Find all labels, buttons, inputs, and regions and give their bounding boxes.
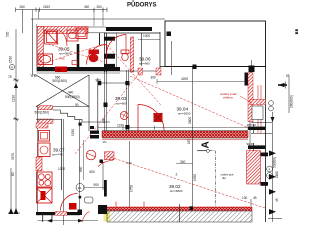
black pier xyxy=(245,73,249,86)
svg-text:PŮDORYS: PŮDORYS xyxy=(127,1,156,9)
svg-text:2600: 2600 xyxy=(188,117,192,124)
poché stubs on corridor wall xyxy=(104,37,115,41)
svg-text:1%: 1% xyxy=(103,140,108,144)
toilet red 39.06 xyxy=(121,50,129,54)
svg-text:60: 60 xyxy=(11,172,15,176)
svg-text:15%: 15% xyxy=(89,51,95,55)
svg-text:55: 55 xyxy=(286,74,290,78)
svg-text:sm=960: sm=960 xyxy=(139,62,150,66)
door opening in top wall xyxy=(88,27,106,33)
svg-text:45: 45 xyxy=(253,196,257,200)
red dashed diagonals bathroom xyxy=(48,44,104,62)
top-right big rectangle (neighbor space) xyxy=(165,21,266,67)
red hatch piers left xyxy=(38,106,53,110)
svg-text:sm=3800: sm=3800 xyxy=(59,52,72,56)
guide line x194 xyxy=(192,67,194,131)
red hatch vertical strip in 39.06 xyxy=(130,37,133,72)
bathroom top wall black part xyxy=(106,27,152,31)
small black square on its left edge xyxy=(167,32,172,37)
red hatch column low xyxy=(247,151,261,184)
yellow patch xyxy=(104,211,111,222)
stairs steps xyxy=(53,78,110,132)
black marker on top wall xyxy=(193,65,197,70)
white leaf rect xyxy=(252,106,263,120)
red circle marker near door xyxy=(120,112,128,120)
svg-text:1510: 1510 xyxy=(9,56,13,63)
corner pier square xyxy=(100,160,104,164)
secondary top line xyxy=(31,18,165,20)
top dimension chain xyxy=(16,8,108,13)
svg-text:50(800): 50(800) xyxy=(273,157,277,168)
red dashed diagonals corridor/39.04 xyxy=(75,45,249,154)
washer box xyxy=(76,28,87,39)
svg-text:sm=740: sm=740 xyxy=(52,153,63,157)
svg-text:300: 300 xyxy=(97,5,103,9)
svg-text:1160: 1160 xyxy=(275,171,279,178)
door half-arc corridor xyxy=(138,105,164,131)
svg-text:2: 2 xyxy=(176,173,178,177)
svg-text:1810: 1810 xyxy=(43,5,50,9)
svg-text:1000: 1000 xyxy=(58,167,65,171)
svg-text:1750: 1750 xyxy=(130,185,134,192)
black diagonal hatch band xyxy=(107,211,252,222)
svg-text:4200: 4200 xyxy=(181,77,188,81)
svg-text:300: 300 xyxy=(151,76,157,80)
black end cap of red wall xyxy=(90,131,99,134)
svg-text:500(1500): 500(1500) xyxy=(35,111,50,115)
svg-text:340: 340 xyxy=(84,5,90,9)
svg-text:39.03: 39.03 xyxy=(115,96,127,101)
svg-text:1530: 1530 xyxy=(71,129,75,136)
vertical guide lines big room xyxy=(128,141,130,211)
bathroom right wall xyxy=(99,33,101,45)
svg-text:500(1500): 500(1500) xyxy=(53,79,68,83)
svg-text:160(800): 160(800) xyxy=(290,95,294,108)
circled markers xyxy=(269,101,274,106)
line y133.5 xyxy=(251,133,272,135)
small red arc bottom hall xyxy=(82,212,90,223)
WC door arc xyxy=(87,45,107,65)
svg-text:75: 75 xyxy=(8,75,12,79)
svg-text:VK: VK xyxy=(31,73,38,78)
svg-text:elštěna: elštěna xyxy=(223,96,233,100)
red hatch wall column upper xyxy=(248,73,253,122)
svg-text:90: 90 xyxy=(75,103,79,107)
fridge box with X xyxy=(37,188,53,203)
dim arrows on right chain xyxy=(271,117,275,122)
shower xyxy=(45,30,59,44)
door flag top xyxy=(249,66,255,73)
bathroom interior divider wall xyxy=(77,44,80,68)
svg-text:900: 900 xyxy=(94,183,100,187)
jamb bar 1 xyxy=(248,127,266,130)
svg-text:Peč: Peč xyxy=(60,57,66,61)
dim line above red wall xyxy=(98,126,248,131)
svg-text:A: A xyxy=(201,141,212,148)
red hatched strip xyxy=(102,207,252,211)
jamb bar 2 xyxy=(248,145,266,149)
bathtub / sink oval bottom-left xyxy=(38,54,53,65)
svg-text:600: 600 xyxy=(90,170,96,174)
red corner pier xyxy=(156,68,161,75)
kitchen top red wall xyxy=(36,123,48,128)
svg-text:520: 520 xyxy=(6,31,10,37)
svg-text:340: 340 xyxy=(180,160,186,164)
bathroom bottom thick wall xyxy=(37,67,120,71)
svg-text:850: 850 xyxy=(102,117,106,123)
svg-text:sm=4800: sm=4800 xyxy=(170,189,183,193)
svg-text:150 90: 150 90 xyxy=(247,123,257,127)
left chain arrowheads xyxy=(9,208,14,214)
red ticks above strip xyxy=(115,202,117,207)
entry arrow xyxy=(278,84,287,86)
svg-text:3970: 3970 xyxy=(11,153,15,160)
washer unit xyxy=(38,143,50,157)
svg-text:sm=2600: sm=2600 xyxy=(178,112,191,116)
bathroom top wall red hatch xyxy=(38,27,89,34)
red sill box xyxy=(55,67,67,73)
section marker A xyxy=(197,141,216,209)
red horizontal band xyxy=(250,99,266,104)
washbasin top xyxy=(67,30,78,41)
svg-text:700: 700 xyxy=(57,68,62,72)
svg-text:500(1500): 500(1500) xyxy=(65,95,80,99)
black line y122.7 xyxy=(251,122,272,124)
svg-text:1000: 1000 xyxy=(143,34,150,38)
left dimension chain xyxy=(8,10,23,214)
door arc into 39.06 xyxy=(107,35,127,55)
black L corner xyxy=(98,205,107,214)
stove 4 burners xyxy=(37,172,53,187)
sink xyxy=(39,131,50,142)
svg-text:dla: dla xyxy=(222,176,226,180)
svg-text:90 45: 90 45 xyxy=(247,142,255,146)
red hatch strip xyxy=(36,157,42,171)
chimney marker xyxy=(86,150,96,160)
svg-text:130: 130 xyxy=(242,196,248,200)
svg-text:1210: 1210 xyxy=(12,95,16,102)
svg-text:260: 260 xyxy=(20,5,26,9)
svg-text:440: 440 xyxy=(68,91,74,95)
wall stub right of 39.06 xyxy=(171,41,173,75)
horizontal lines below block xyxy=(36,70,160,72)
svg-text:sm=660: sm=660 xyxy=(116,102,127,106)
door arc kitchen to hall xyxy=(61,194,78,211)
red double verticals xyxy=(257,85,259,133)
svg-text:187: 187 xyxy=(187,138,191,144)
svg-text:45: 45 xyxy=(275,198,279,202)
WC toilet xyxy=(89,50,100,55)
svg-text:1950: 1950 xyxy=(193,174,197,181)
witness line through band xyxy=(179,204,181,222)
wall line below pier xyxy=(102,163,104,190)
hall items xyxy=(76,184,84,192)
39.06 block outline xyxy=(104,32,160,34)
shower door arc xyxy=(59,31,67,47)
kitchen bottom wall xyxy=(36,212,80,215)
tiny top right mark xyxy=(295,29,298,31)
small door arc hall xyxy=(98,161,113,167)
bathroom left wall red hatch xyxy=(38,27,44,71)
svg-text:1190: 1190 xyxy=(117,124,124,128)
left small circle R xyxy=(9,64,14,69)
